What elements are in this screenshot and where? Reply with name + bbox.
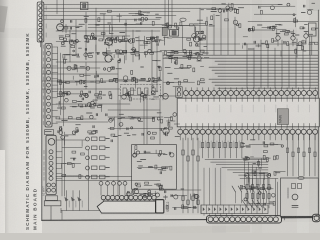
pin labels left of CN3 (43, 151, 45, 154)
frame bottom border (42, 219, 208, 222)
wire below CN3 (50, 206, 52, 220)
connector CN6 bottom long (97, 201, 156, 213)
wire top right (253, 29, 272, 31)
staircase routing (205, 159, 268, 161)
component cluster center (107, 66, 162, 102)
component cluster top A (84, 10, 161, 33)
wire horizontals lower-left (56, 176, 132, 178)
electrolytic caps top right (276, 36, 280, 40)
label oval (180, 18, 186, 21)
left page margin (0, 0, 42, 233)
thick link wire (282, 216, 314, 218)
resistor columns bottom right-mid (246, 179, 248, 209)
wire (162, 25, 205, 27)
component cluster center-low (109, 113, 180, 142)
crystal X1 top (81, 2, 88, 9)
component cluster left-low (61, 133, 84, 179)
transistor Q5 (163, 94, 169, 100)
connector CN6 end cap (156, 200, 164, 213)
resistor ladder verticals (182, 138, 184, 213)
pin labels left of CN2 (42, 45, 44, 49)
wire (40, 42, 42, 47)
wires near G2 (240, 178, 278, 180)
diagonals bottom right-mid (242, 200, 247, 207)
IC U1 main connector box (177, 98, 319, 127)
component cluster bottom right-mid (240, 185, 275, 205)
dark label column (162, 28, 167, 36)
wire net horizontals (88, 23, 168, 25)
relay driver rows (86, 137, 90, 141)
scan smudge top-left edge (0, 6, 8, 33)
connector CN7 bottom strip (207, 216, 282, 223)
frame left border (41, 0, 43, 221)
component cluster top right upper sparse (254, 3, 315, 27)
resistor row R-array under CN5 (202, 140, 204, 158)
component cluster top B dense (84, 31, 164, 63)
component cluster right-mid-low (241, 140, 286, 187)
relay box K3 (44, 201, 61, 206)
connector row CN4 pins (183, 91, 188, 96)
component cluster bottom center-right (164, 189, 199, 210)
transistor Q2 (57, 24, 64, 31)
frame right border (317, 10, 319, 215)
transistor Q3 (105, 38, 113, 46)
pilot circles above CN6 (99, 181, 103, 185)
transistor Q6 (163, 128, 169, 134)
diagonal diodes right of matrix (232, 186, 236, 192)
connector CN1 top-left (37, 2, 44, 42)
scan streaks (212, 0, 226, 233)
component cluster mid top (164, 22, 207, 56)
component cluster bus-left (164, 53, 210, 87)
wire verticals top-left (63, 0, 65, 30)
connector CN8 bottom right (313, 214, 320, 222)
component cluster top right (242, 19, 319, 57)
label column right (296, 39, 298, 58)
transistor Q7 (292, 194, 298, 200)
wires matrix to strip (203, 214, 205, 216)
sub box bottom right (281, 178, 319, 216)
sub-board components (133, 146, 174, 174)
diode matrix (201, 205, 268, 214)
diode D22 on wire (79, 191, 81, 211)
connector row CN5 pins (178, 129, 183, 134)
label block dark (277, 109, 288, 125)
bus verticals right (246, 44, 248, 88)
verticals from top mid (199, 8, 201, 55)
connector CN2 left (45, 44, 52, 128)
component cluster left-mid (56, 101, 107, 139)
bus horizontal right-middle (163, 54, 318, 56)
transistor Q1 (193, 36, 199, 42)
component K1 small box (45, 130, 54, 135)
transistor Q4 (105, 55, 112, 62)
pilot circle (156, 193, 160, 197)
wire verticals under CN5 right (287, 135, 289, 177)
wire rail bottom-left (61, 210, 101, 212)
IC U2 (170, 30, 179, 37)
label text vertical (195, 27, 197, 40)
component cluster above CN6 (127, 182, 164, 202)
pin labels right of CN1 (45, 6, 47, 10)
component cluster top right-mid (197, 3, 243, 28)
vertical pin labels U1 (185, 105, 187, 112)
wire collectors right of CN2 (57, 47, 59, 96)
diode D21 on wire (72, 191, 74, 211)
pin pairs (47, 183, 51, 187)
sub-board box (132, 145, 177, 190)
connector CN3 lower-left (46, 135, 56, 194)
wire bus top-left (44, 4, 280, 6)
wire net verticals (85, 12, 87, 60)
pin stubs U1 (185, 98, 187, 101)
relay box K2 (46, 196, 58, 201)
light patches (60, 120, 120, 175)
wire top right long (248, 21, 318, 23)
diode D20 on wire (66, 191, 68, 211)
dashed option box (121, 85, 161, 100)
relay box top right (309, 23, 317, 36)
connector J2 small (176, 87, 182, 98)
component cluster mid-left (57, 65, 106, 107)
verticals into matrix (203, 168, 205, 205)
component cluster left top (56, 20, 84, 63)
